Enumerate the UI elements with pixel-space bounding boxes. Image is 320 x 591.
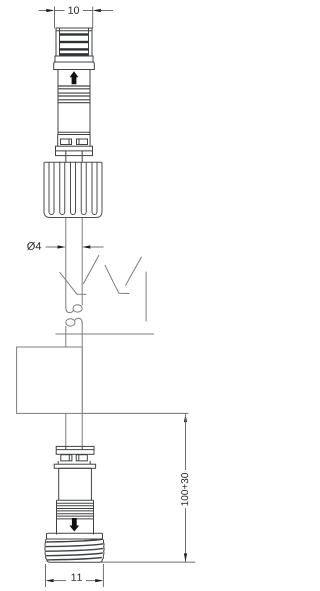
label box on cable (17, 347, 83, 413)
connector A body bottom line 1 (58, 131, 90, 133)
connector A cap top thin line (56, 30, 92, 32)
thread line 1 (46, 539, 103, 542)
connector A neck right line (81, 151, 83, 162)
dimension Ø4 right arrowhead (82, 245, 90, 248)
dimension 100+30 line upper (185, 414, 187, 470)
connector A ribbed cap outline (56, 28, 92, 56)
connector B rib pair 3 (57, 514, 94, 516)
knurl groove 4 (81, 163, 86, 215)
dimension 100+30 upper arrowhead (184, 414, 187, 422)
connector A body rib line 2b (58, 95, 90, 97)
dimension 11 line right (86, 580, 96, 582)
connector A body bottom line 2 (58, 134, 90, 136)
connector A latch tab right (77, 139, 88, 145)
dimension 10 line inner left (55, 10, 65, 12)
connector A body rib line 1a (58, 85, 90, 87)
connector B step verticals (58, 461, 90, 464)
dimension Ø4 text (27, 242, 41, 250)
dimension Ø4 leader line right (90, 246, 104, 248)
connector A direction arrow up (70, 71, 79, 84)
dimension 11 text (71, 574, 81, 581)
stripped length reference line (56, 333, 155, 335)
connector B wide collar (54, 464, 95, 468)
connector B rib pair 2 (57, 509, 94, 511)
connector B flange tick right (81, 446, 83, 449)
connector A cap rib band 4 (60, 53, 89, 55)
dimension 100+30 text (181, 473, 188, 505)
connector B upper flange mid line (56, 449, 94, 451)
cable left line lower stub (65, 326, 67, 347)
cable left line below box (65, 413, 67, 446)
connector A lower flange band (54, 62, 95, 70)
connector A body rib line 3b (58, 102, 90, 104)
connector B latch tab right (76, 455, 87, 461)
thread upper partial line (84, 539, 103, 540)
connector A body sides (58, 70, 90, 135)
dimension 10 extension line left (54, 7, 56, 29)
connector A body rib line 3a (58, 99, 90, 101)
cable right line upper (81, 218, 83, 306)
cable break upper S (66, 307, 74, 313)
dimension 100+30 lower arrowhead (184, 553, 187, 561)
thread line 4 (46, 553, 103, 556)
dimension Ø4 leader line left (46, 246, 59, 248)
cable break lower S (75, 318, 83, 324)
thread line 5 (47, 558, 102, 560)
dimension 11 line left (53, 580, 66, 582)
knurled coupling nut outline (44, 162, 102, 217)
connector B upper flange (56, 446, 94, 454)
connector B body sides (59, 468, 92, 500)
connector B step line (57, 499, 94, 501)
thread right edge scallops (100, 539, 104, 562)
connector A latch side right (89, 135, 91, 147)
wire sketch V right (105, 257, 142, 294)
dimension 10 extension line right (92, 7, 94, 29)
connector A cap rib band 2 (60, 41, 89, 43)
connector A neck left line (65, 151, 67, 162)
cable left line upper (65, 218, 67, 309)
connector A latch tab left (61, 139, 72, 145)
connector A lower flange mid line (56, 150, 93, 152)
knurl groove 2 (60, 163, 65, 215)
extension line from box bottom (82, 412, 188, 414)
dimension 11 extension line right (102, 564, 104, 587)
connector B body top line (59, 467, 92, 469)
extension line from connector B end (100, 561, 195, 563)
connector A body top line (58, 69, 90, 71)
connector B rib pair 1 (57, 503, 94, 505)
dimension 11 left arrowhead (46, 579, 54, 582)
dimension 11 extension line left (45, 564, 47, 587)
connector A cap inner vertical right (88, 28, 90, 56)
wire sketch V left (60, 255, 100, 294)
dimension 10 line left tail (39, 10, 48, 12)
connector B flange tick left (65, 446, 67, 449)
dimension 10 text (68, 6, 78, 13)
connector A upper flange band (55, 56, 93, 62)
cable break upper loop (73, 305, 82, 312)
connector A body rib line 2a (58, 92, 90, 94)
connector B direction arrow down (69, 518, 79, 532)
dimension 10 line right tail (100, 10, 113, 12)
threaded nut top band (47, 533, 103, 539)
dimension Ø4 left arrowhead (58, 245, 66, 248)
dimension 10 right arrowhead (93, 9, 101, 12)
connector A cap inner vertical left (59, 28, 61, 56)
dimension 10 line inner right (83, 10, 93, 12)
knurl groove 3 (71, 163, 76, 215)
dimension 100+30 line lower (185, 508, 187, 562)
thread left edge scallops (45, 539, 49, 562)
thread line 3 (46, 548, 103, 551)
connector B rib bottom line (57, 518, 94, 520)
dimension 11 right arrowhead (95, 579, 103, 582)
connector B latch tab left (61, 455, 72, 461)
dimension 10 left arrowhead (46, 9, 54, 12)
connector A cap rib band 3 (60, 48, 89, 50)
cable break lower loop (66, 319, 75, 326)
connector A latch side left (57, 135, 59, 147)
thread line 2 (46, 544, 103, 547)
cable right line lower (81, 323, 83, 447)
knurl groove 1 (49, 163, 54, 215)
thread bottom edge (49, 561, 100, 563)
connector A body rib line 1b (58, 88, 90, 90)
connector A lower flange (56, 146, 93, 155)
connector A cap rib band 1 (60, 33, 89, 35)
wire sketch vertical line (145, 272, 147, 322)
knurl groove 5 (92, 163, 97, 215)
connector B wide section sides (57, 500, 94, 534)
